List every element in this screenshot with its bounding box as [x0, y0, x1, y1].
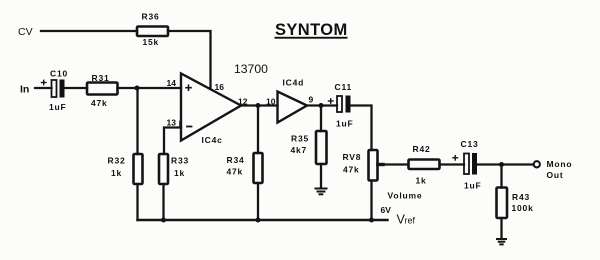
svg-text:14: 14 — [167, 78, 177, 88]
plus input mark — [186, 85, 191, 90]
svg-text:R42: R42 — [413, 144, 431, 154]
label Mono Out — [547, 159, 573, 180]
wire R32 to rail — [136, 184, 138, 220]
wire R36 to corner — [168, 31, 211, 89]
svg-text:9: 9 — [309, 95, 314, 105]
wire R42 to C13 — [440, 163, 465, 165]
wire R34 to rail — [257, 183, 259, 220]
wire RV8 wiper to R42 — [378, 163, 409, 165]
ground under R43 — [497, 239, 506, 244]
title SYNTOM — [275, 21, 348, 39]
capacitor C13 — [453, 153, 477, 175]
terminal Mono Out — [534, 161, 540, 167]
svg-text:R33: R33 — [171, 156, 189, 166]
minus input mark — [187, 126, 192, 128]
resistor R35 — [316, 131, 327, 164]
resistor R42 — [409, 160, 440, 170]
svg-text:C10: C10 — [50, 69, 68, 79]
svg-text:R34: R34 — [227, 155, 245, 165]
wire C13 to output — [477, 163, 533, 165]
svg-text:RV8: RV8 — [343, 152, 362, 162]
svg-text:IC4c: IC4c — [202, 135, 223, 145]
svg-text:R36: R36 — [142, 12, 160, 22]
wire IC4d out to C11 — [307, 104, 337, 106]
resistor R36 — [137, 27, 168, 37]
wire node down to R32 — [136, 88, 138, 154]
svg-text:1uF: 1uF — [49, 102, 67, 112]
junction R33 rail — [161, 218, 166, 223]
svg-text:13700: 13700 — [234, 62, 268, 76]
resistor R34 — [254, 153, 263, 183]
wire CV to R36 — [41, 30, 137, 32]
resistor R31 — [87, 83, 118, 95]
svg-text:1uF: 1uF — [336, 119, 354, 129]
svg-text:15k: 15k — [143, 37, 160, 47]
resistor R43 — [497, 188, 508, 219]
wire R31 to pin 14 — [118, 87, 182, 89]
svg-text:Mono: Mono — [547, 159, 573, 169]
op-amp IC4c — [181, 74, 241, 141]
svg-text:100k: 100k — [512, 203, 534, 213]
svg-text:47k: 47k — [227, 167, 244, 177]
svg-text:10: 10 — [266, 97, 276, 107]
ground under R35 — [316, 189, 327, 195]
svg-text:ref: ref — [405, 216, 416, 226]
pin 13 stub — [179, 122, 181, 128]
junction R35 branch — [319, 103, 324, 108]
junction R34 rail — [256, 218, 261, 223]
svg-text:C13: C13 — [461, 139, 479, 149]
label Vref — [397, 213, 416, 227]
wire R43 to ground — [500, 218, 502, 238]
junction R43 branch — [499, 162, 504, 167]
svg-text:1k: 1k — [174, 168, 185, 178]
junction R34 branch — [256, 103, 261, 108]
junction RV8 rail — [369, 218, 374, 223]
svg-text:13: 13 — [167, 118, 177, 128]
svg-text:IC4d: IC4d — [283, 78, 305, 88]
svg-text:R35: R35 — [291, 134, 309, 144]
wire R35 to ground — [320, 164, 322, 187]
pin 14 stub — [180, 82, 182, 89]
svg-text:C11: C11 — [335, 82, 353, 92]
svg-text:Volume: Volume — [388, 191, 423, 201]
svg-text:In: In — [20, 84, 29, 96]
svg-text:R43: R43 — [512, 192, 530, 202]
svg-text:Out: Out — [547, 170, 564, 180]
wire node down to R34 — [257, 106, 259, 154]
svg-text:47k: 47k — [91, 98, 108, 108]
resistor R32 — [134, 154, 143, 184]
svg-text:SYNTOM: SYNTOM — [275, 21, 348, 39]
wire C11 to RV8 — [351, 106, 372, 151]
resistor R33 — [159, 154, 168, 184]
wire R33 to rail — [162, 184, 164, 220]
svg-text:1uF: 1uF — [464, 181, 482, 191]
wire pin 13 to R33 — [164, 128, 181, 155]
capacitor C10 — [42, 80, 65, 98]
wire node down to R35 — [320, 106, 322, 132]
potentiometer RV8 — [369, 150, 378, 181]
rail Vref — [138, 219, 388, 221]
junction node at R32 branch — [135, 86, 140, 91]
svg-text:R31: R31 — [92, 73, 110, 83]
svg-text:6V: 6V — [381, 205, 392, 215]
svg-text:R32: R32 — [108, 156, 126, 166]
wire RV8 to rail — [370, 181, 372, 221]
wire node down to R43 — [500, 165, 502, 188]
svg-text:16: 16 — [215, 82, 225, 92]
wire IC4c out to IC4d in — [241, 104, 278, 106]
capacitor C11 — [329, 96, 351, 113]
svg-text:CV: CV — [18, 26, 33, 38]
wire C10 to R31 — [65, 87, 88, 89]
svg-text:1k: 1k — [416, 176, 427, 186]
wire In to C10 — [35, 87, 52, 89]
svg-text:47k: 47k — [343, 165, 360, 175]
svg-text:4k7: 4k7 — [291, 145, 308, 155]
op-amp IC4d — [278, 92, 308, 123]
svg-text:1k: 1k — [111, 168, 122, 178]
